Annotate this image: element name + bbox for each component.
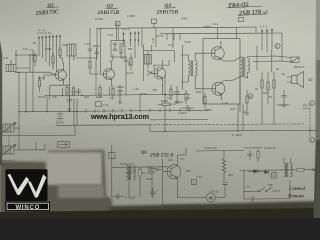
capacitor C15 [223, 183, 228, 191]
transistor Q5 [209, 80, 234, 100]
svg-text:R 150: R 150 [140, 92, 147, 96]
svg-text:2SB 172 A: 2SB 172 A [149, 152, 174, 158]
wire Q1 base bias [44, 75, 52, 80]
underline Q4Q5 [227, 6, 262, 8]
resistor R11 [170, 85, 172, 100]
resistor R7 [99, 84, 101, 98]
transistor Q2 [100, 62, 114, 87]
relay transformer T6 [284, 158, 292, 177]
node C boxed right [272, 173, 277, 179]
node d circled [275, 43, 280, 48]
wire right edge vertical [314, 170, 316, 204]
svg-text:C 30μF: C 30μF [178, 111, 187, 115]
ground symbols [68, 99, 287, 114]
wire stubs bus2 [166, 34, 168, 40]
svg-text:C 680: C 680 [127, 14, 135, 18]
svg-text:Q1: Q1 [47, 3, 54, 9]
resistor R1 [34, 52, 36, 66]
svg-text:1K: 1K [110, 96, 113, 100]
resistor R26 [139, 167, 141, 180]
wire arrow right A [308, 169, 315, 171]
svg-text:R 3.3K: R 3.3K [156, 34, 164, 38]
wire bus y111 [18, 110, 208, 112]
value labels scatter [22, 33, 285, 114]
wire bottom right rail [240, 169, 318, 172]
diode D1 [248, 169, 258, 174]
resistor R4 [72, 86, 74, 96]
capacitor C13 [175, 86, 180, 99]
transistor Q4-Q5 label 2SB178 x2 [228, 1, 269, 17]
wire Q2 base vertical [100, 28, 102, 74]
label R6 [127, 61, 131, 66]
oscillator coil T5 [67, 44, 76, 63]
svg-text:M: M [209, 195, 213, 200]
svg-text:R 10K: R 10K [96, 95, 103, 99]
svg-text:www.hpra13.com: www.hpra13.com [90, 112, 149, 121]
resistor Ra [52, 52, 54, 68]
svg-text:τ 500: τ 500 [203, 25, 211, 29]
node V circled [310, 101, 315, 106]
svg-text:C 600: C 600 [181, 17, 188, 21]
capacitor C3 [67, 95, 72, 106]
wire riser x142 [141, 28, 143, 47]
component box top mid [239, 18, 244, 22]
lower half slight darkening [0, 125, 320, 218]
capacitor C16 [127, 167, 132, 179]
wire Q6 base rail [154, 169, 162, 170]
svg-text:R 5.6K: R 5.6K [38, 95, 46, 99]
battery B1 4.5V [57, 111, 64, 121]
component box mid-left [96, 102, 109, 108]
wire x162 vertical [162, 159, 164, 205]
lighter mottled patch in dark zone [46, 152, 102, 185]
node E boxed mid [152, 19, 157, 28]
capacitor C10 30uF [182, 106, 194, 111]
output transformer T4 [234, 57, 253, 81]
capacitor C17 [150, 167, 155, 178]
capacitor C14b plus [151, 188, 159, 198]
wire right edge riser [315, 150, 317, 170]
svg-text:R 56: R 56 [186, 169, 192, 173]
IF transformer T2 [145, 51, 152, 68]
wire Q3 base [148, 70, 152, 76]
node B boxed top [115, 22, 120, 26]
svg-text:Remoto: Remoto [288, 195, 304, 200]
svg-text:680: 680 [128, 47, 133, 51]
wire bottom right lower [244, 191, 252, 199]
svg-text:R 1K: R 1K [167, 96, 173, 100]
svg-text:R 1K: R 1K [168, 158, 174, 162]
svg-text:+: + [157, 189, 159, 193]
svg-text:B: B [249, 95, 251, 99]
resistor R17 horizontal [158, 103, 176, 106]
svg-text:switch: switch [1, 163, 10, 167]
svg-text:R 17 Ω: R 17 Ω [303, 107, 310, 111]
resistor R12 [185, 90, 187, 104]
wire Q2 emitter resistors [109, 87, 111, 95]
wire x112 vertical bottom [112, 145, 117, 197]
transistor Q3 [151, 60, 166, 86]
wire bottom right feeder [244, 147, 262, 149]
antenna coil L1 box [6, 60, 30, 72]
svg-text:Control: Control [289, 187, 305, 192]
transistor Q6 [163, 160, 181, 186]
capacitor C14 [117, 194, 124, 199]
capacitor C4 [88, 45, 92, 58]
svg-text:C 100-100: C 100-100 [204, 146, 217, 150]
wire riser x57 [56, 121, 58, 125]
W glyph [8, 174, 47, 198]
wire riser x156 [155, 28, 157, 47]
wire x69 vertical [69, 63, 71, 95]
svg-text:R 33: R 33 [196, 90, 202, 94]
wire dashed vertical x310 [309, 104, 311, 138]
band switch S2 contacts [123, 32, 140, 46]
svg-text:A·R: A·R [3, 56, 8, 60]
svg-text:R 2.2K: R 2.2K [126, 71, 134, 75]
svg-text:R 22K: R 22K [95, 17, 103, 21]
schematic ink [34, 1, 282, 72]
capacitor C20 [252, 197, 260, 202]
label Q6 2SB172A [141, 150, 174, 159]
junction dots S2 [123, 39, 140, 41]
svg-text:WINCO: WINCO [15, 205, 40, 211]
svg-text:2SB175B: 2SB175B [97, 10, 120, 16]
svg-text:B: B [116, 22, 118, 26]
resistor R6 vertical w label [130, 54, 132, 70]
tuning capacitor VC2 [2, 145, 19, 156]
resistor R21 [261, 72, 263, 104]
switch S5 contacts bottom [258, 187, 280, 192]
underline Q3 [164, 7, 176, 9]
transistor Q4 [208, 41, 234, 61]
transistor Q3 label 2SB175B [156, 3, 179, 15]
wire drops below bus111 [19, 111, 77, 135]
svg-text:C .04: C .04 [107, 33, 113, 37]
capacitor C5 [95, 48, 99, 60]
node dots bus131 [164, 130, 311, 133]
svg-text:2 - 1 - 3: 2 - 1 - 3 [122, 28, 129, 32]
wire mid feeder y150 [196, 149, 244, 152]
wire riser x90 [89, 28, 91, 45]
wire riser Q4 collector [217, 27, 219, 38]
wire left column verticals [16, 72, 33, 112]
svg-text:C .04: C .04 [22, 47, 28, 51]
wire bottom link motor to right [260, 181, 290, 199]
wire bottom cluster drops [129, 178, 152, 197]
wire Q1 emitter rail y85 [50, 84, 70, 86]
capacitor C3b [77, 88, 81, 95]
svg-text:C 50: C 50 [152, 88, 158, 92]
wire riser x75 [74, 125, 76, 135]
resistor R3 [66, 85, 68, 96]
svg-text:4Ω: 4Ω [308, 78, 313, 82]
node dots bus111 [25, 111, 78, 113]
svg-text:1.5V: 1.5V [103, 103, 109, 107]
wire riser x244 [244, 170, 258, 191]
transistor Q1 label 2SB173C [34, 3, 60, 17]
bottom dark band [110, 201, 320, 218]
svg-text:5K: 5K [33, 41, 36, 45]
wire bus y125 dashed part [150, 123, 304, 126]
svg-text:C .02: C .02 [71, 90, 77, 94]
wire Q1 emitter net [62, 88, 64, 95]
diode D2 [258, 170, 269, 175]
wire bus y135 left [2, 134, 75, 137]
resistor R24 [246, 90, 248, 110]
svg-text:γ λ · γ λ: γ λ · γ λ [38, 29, 46, 32]
wire riser x49.8 [49, 85, 51, 100]
wire gang link dashed [8, 136, 10, 146]
svg-text:VR: VR [281, 72, 285, 76]
capacitor C22 [149, 166, 155, 171]
wire left bottom net [19, 136, 45, 150]
svg-text:TR4-Q5: TR4-Q5 [228, 1, 249, 9]
resistor R28 zigzag [222, 158, 225, 173]
svg-text:C 100 / 10: C 100 / 10 [264, 146, 276, 150]
wire Q6 collector net [177, 148, 186, 160]
wire S3 to jack [257, 46, 272, 72]
speaker SP [287, 72, 304, 88]
wire second bus [160, 32, 282, 35]
WINCO logo [5, 169, 50, 211]
wire riser x236 to T4 [236, 27, 238, 38]
svg-text:C 5: C 5 [180, 157, 184, 161]
wire Q3 emitter down [162, 85, 164, 95]
labels bottom mid cluster [120, 162, 160, 181]
svg-text:3K: 3K [255, 87, 258, 91]
svg-text:R 100: R 100 [93, 44, 100, 48]
resistor R15 [204, 93, 206, 108]
resistor R8 [112, 85, 114, 99]
wire x182.5 vertical [182, 45, 184, 90]
motor M [163, 186, 226, 205]
left dark edge [0, 40, 2, 165]
wire left mid net [16, 50, 39, 72]
wire Q2 base net [90, 72, 99, 74]
motor transformer T7 [127, 166, 136, 181]
component box B2 [109, 153, 116, 159]
svg-text:C .04: C .04 [222, 101, 228, 105]
label R9 3.3K vertical [151, 37, 155, 43]
node B circled [248, 94, 253, 99]
wire x165 lower [164, 111, 166, 131]
wire Q1 collector top [60, 58, 63, 63]
svg-text:2SB175B: 2SB175B [156, 9, 179, 15]
svg-text:1K: 1K [243, 110, 246, 114]
wire top bus [97, 27, 256, 28]
svg-text:C .01: C .01 [168, 43, 174, 47]
svg-text:R 1K: R 1K [228, 173, 234, 177]
output stage enclosure box [203, 39, 240, 105]
svg-text:R 10K: R 10K [38, 76, 45, 80]
wire T4 primary bottom [239, 77, 241, 112]
svg-text:C .04: C .04 [133, 87, 139, 91]
node C boxed [192, 180, 197, 185]
svg-text:R 280: R 280 [205, 108, 212, 112]
wire T1 to Q2 [110, 55, 114, 63]
wire Q1 base feed [15, 72, 55, 75]
wire verticals to bus111 [47, 95, 77, 112]
svg-text:R 22: R 22 [230, 107, 236, 111]
earphone jack J1 [253, 56, 299, 63]
capacitor C6 [118, 85, 123, 99]
IF transformer T1 [111, 41, 125, 58]
svg-text:R 5K: R 5K [268, 183, 274, 187]
wire right verticals [238, 104, 243, 131]
capacitor Cx [124, 56, 128, 66]
svg-text:R 30: R 30 [263, 91, 269, 95]
svg-text:C .04: C .04 [84, 42, 90, 46]
wire T1 bottom to ground [121, 52, 126, 58]
label Control Remoto [288, 187, 305, 200]
dark background zone bottom-left (off-paper) [0, 150, 112, 218]
node dots left [15, 54, 34, 56]
wire extra verticals mid [96, 33, 282, 124]
svg-text:5K: 5K [276, 67, 279, 71]
capacitor C19 [248, 150, 253, 160]
ferrite antenna L2 [1, 123, 20, 134]
svg-text:S · MAS: S · MAS [232, 133, 242, 137]
svg-text:.04: .04 [246, 185, 250, 189]
svg-text:3.3K: 3.3K [151, 37, 155, 43]
wire emitter ground rail y95 [45, 94, 190, 95]
switch S3 contacts top right [261, 29, 273, 52]
capacitor C12 [282, 90, 287, 102]
wire bus y125 solid part [57, 124, 150, 127]
svg-text:220: 220 [186, 96, 191, 100]
tick risers on bus y111 [86, 108, 190, 112]
transistor Q1 [52, 63, 66, 85]
svg-text:R 4.7K: R 4.7K [142, 171, 150, 175]
resistor Rb [59, 47, 61, 58]
watermark www.hpra13.com [90, 112, 150, 122]
wire dashed to switch [2, 159, 14, 162]
svg-text:C .04: C .04 [196, 175, 202, 179]
driver transformer T3 [181, 53, 209, 89]
underline Q2 [106, 7, 118, 9]
resistor R2 [38, 76, 40, 92]
underline Q1 [47, 6, 59, 9]
svg-text:d: d [276, 45, 278, 49]
boxed arrow node [58, 142, 70, 148]
resistor R30 on wire [297, 168, 304, 171]
svg-text:C .04: C .04 [212, 22, 218, 26]
wire riser x116.5 [116, 26, 118, 41]
wire R28 leads [223, 150, 225, 182]
svg-text:2 - 1 - 3: 2 - 1 - 3 [260, 25, 267, 29]
resistor R22 [267, 72, 269, 104]
wire T2 loop [144, 45, 175, 81]
wire riser x97 [76, 28, 97, 58]
svg-text:300Ω M↓: 300Ω M↓ [294, 65, 306, 69]
resistor R23 [273, 72, 275, 104]
right dark edge [314, 0, 320, 218]
wire bus y131 [150, 130, 318, 131]
svg-text:C 50μF: C 50μF [116, 85, 124, 89]
labels near Q6 [168, 157, 274, 189]
wire bottom mid rail [112, 166, 168, 169]
resistor R5 [89, 58, 91, 72]
band switch S1 contacts [38, 35, 61, 45]
svg-text:R 220: R 220 [146, 177, 153, 181]
resistor R29 [257, 149, 259, 162]
svg-text:R 56K: R 56K [45, 47, 52, 51]
wire riser x173 [172, 28, 174, 48]
wire S1 leads down [39, 45, 60, 72]
svg-text:OSC: OSC [62, 43, 68, 47]
svg-text:Q6: Q6 [141, 150, 147, 155]
node 4 circled [310, 138, 315, 143]
transistor Q2 label 2SB175B [97, 4, 120, 16]
svg-text:4.5V: 4.5V [58, 121, 64, 125]
wire riser x256 [255, 27, 257, 33]
svg-text:C 10P: C 10P [184, 40, 191, 44]
svg-text:R 1K: R 1K [84, 95, 90, 99]
wire mid horizontals under Q5 [150, 119, 208, 121]
wire riser x150 [149, 125, 151, 132]
svg-text:C -30μF: C -30μF [125, 196, 135, 200]
node dots rail95 [62, 94, 166, 96]
svg-text:C 30: C 30 [52, 95, 58, 99]
wire x165 long vertical [164, 75, 166, 111]
svg-text:5K: 5K [269, 95, 272, 99]
svg-text:31.4: 31.4 [303, 103, 309, 107]
